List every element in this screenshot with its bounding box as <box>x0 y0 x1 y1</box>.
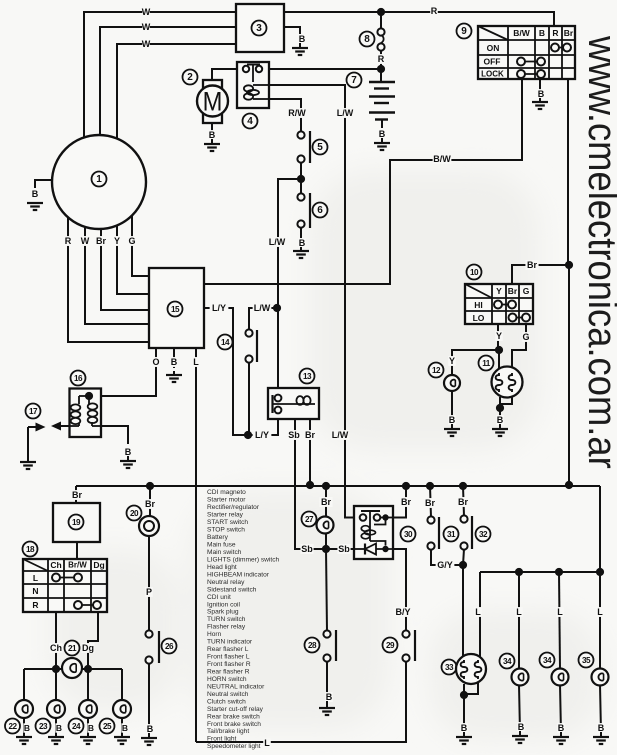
wire W1 magneto to rectifier <box>84 12 236 137</box>
wire tail light right filament return <box>464 683 478 694</box>
node Y junction <box>495 346 503 354</box>
svg-text:LO: LO <box>473 313 485 323</box>
svg-text:L: L <box>33 573 38 583</box>
node turn rail right <box>84 665 92 673</box>
LIGHTS dimmer switch 10 <box>467 265 482 280</box>
svg-text:Horn: Horn <box>207 631 222 638</box>
wire rectifier B ground lead <box>284 27 300 34</box>
svg-text:Front flasher R: Front flasher R <box>207 661 251 668</box>
wire W2 magneto to rectifier <box>100 27 236 135</box>
tail/brake light 33 <box>442 660 457 675</box>
wire fuse bottom to battery junction <box>380 50 382 69</box>
svg-text:26: 26 <box>165 642 174 651</box>
wire CDI O output to ignition coil <box>89 348 156 396</box>
wire neutral relay Sb output <box>295 419 354 549</box>
main switch OFF contacts <box>521 61 541 63</box>
wire L/W junction to sidestand switch <box>249 308 277 329</box>
wire main switch B ground lead <box>539 79 541 97</box>
wire Sb to neutral switch <box>326 549 327 631</box>
svg-text:OFF: OFF <box>484 57 501 67</box>
wire sidestand switch to L/Y junction <box>248 362 250 435</box>
svg-text:14: 14 <box>221 338 230 347</box>
front light 34b <box>540 653 555 668</box>
node rear brake Br junction <box>426 482 434 490</box>
wire front flasher L drop <box>55 669 57 701</box>
svg-text:21: 21 <box>68 644 77 653</box>
wire CDI L/Y output <box>204 308 248 435</box>
svg-text:B: B <box>88 723 94 733</box>
svg-text:Starter cut-off relay: Starter cut-off relay <box>207 706 264 713</box>
CDI unit 15 <box>149 268 204 348</box>
svg-text:CDI unit: CDI unit <box>207 594 231 601</box>
svg-text:Br: Br <box>527 260 537 270</box>
svg-text:Dg: Dg <box>93 560 104 570</box>
CDI magneto 1 <box>52 135 146 229</box>
svg-text:B/Y: B/Y <box>395 607 410 617</box>
wire stop switch to ground <box>300 227 302 238</box>
ground front flasher R <box>80 737 96 744</box>
svg-text:L/W: L/W <box>254 303 271 313</box>
wire dimmer Y output <box>497 324 499 350</box>
svg-text:5: 5 <box>317 142 323 153</box>
svg-text:START switch: START switch <box>207 519 248 526</box>
NEUTRAL indicator 27 <box>302 512 317 527</box>
wire battery negative to ground <box>381 120 383 128</box>
TURN switch 18 <box>23 542 38 557</box>
svg-text:P: P <box>146 587 152 597</box>
ground tail light <box>456 737 472 744</box>
ground stop switch <box>293 251 309 258</box>
starter relay coil <box>244 85 253 91</box>
svg-text:Head light: Head light <box>207 564 237 571</box>
wire magneto Y lead to CDI <box>117 225 149 294</box>
svg-text:L/Y: L/Y <box>212 303 226 313</box>
svg-text:HIGHBEAM indicator: HIGHBEAM indicator <box>207 571 270 578</box>
svg-text:G: G <box>522 332 529 342</box>
svg-text:Clutch switch: Clutch switch <box>207 698 246 705</box>
wire horn switch to ground <box>148 662 150 734</box>
cutoff relay coil path <box>374 518 386 525</box>
START switch 5 <box>297 131 304 138</box>
wire fuse top <box>380 12 382 28</box>
svg-text:G/Y: G/Y <box>437 560 453 570</box>
ground highbeam indicator <box>444 429 460 436</box>
rectifier/regulator 3 <box>236 4 284 52</box>
wire head light right filament to common <box>500 396 512 404</box>
node Sb junction <box>322 545 330 553</box>
ground CDI unit <box>166 375 182 382</box>
svg-text:6: 6 <box>317 205 323 216</box>
wire G/Y to tail light <box>462 565 464 657</box>
starter cut-off relay 30 <box>354 506 393 559</box>
sidestand switch 14 <box>253 303 272 313</box>
wire magneto Br lead to CDI <box>101 229 149 310</box>
node L/Y junction <box>244 431 252 439</box>
node front brake Br junction <box>459 482 467 490</box>
wire rear flasher L drop <box>23 669 25 701</box>
svg-text:11: 11 <box>482 359 491 368</box>
svg-text:www.cmelectronica.com.ar: www.cmelectronica.com.ar <box>580 35 617 469</box>
wire motor ground lead <box>211 123 213 131</box>
svg-text:25: 25 <box>103 722 112 731</box>
wire flasher lamp rail <box>24 668 122 670</box>
main switch ON contacts <box>555 47 567 49</box>
svg-text:LOCK: LOCK <box>481 70 504 79</box>
svg-text:1: 1 <box>96 174 102 185</box>
svg-text:B: B <box>558 723 565 733</box>
wire Br continues to bottom bus <box>568 265 570 485</box>
wire horn to horn switch <box>148 536 150 631</box>
svg-text:R: R <box>378 54 385 64</box>
node diode output <box>382 546 388 552</box>
wire front light 2 ground <box>560 685 561 733</box>
wire Y to highbeam indicator <box>452 350 499 375</box>
svg-text:19: 19 <box>72 518 81 527</box>
TURN indicator 21 <box>65 641 80 656</box>
svg-text:Front light: Front light <box>207 736 236 743</box>
svg-text:13: 13 <box>303 372 312 381</box>
node tail light common <box>460 691 468 699</box>
svg-text:R: R <box>552 28 558 38</box>
svg-text:3: 3 <box>256 23 262 34</box>
svg-text:NEUTRAL indicator: NEUTRAL indicator <box>207 683 265 690</box>
svg-text:L: L <box>475 607 481 617</box>
svg-text:HORN switch: HORN switch <box>207 676 247 683</box>
neutral relay 13 <box>300 369 315 384</box>
ground rectifier <box>292 48 308 55</box>
svg-text:B: B <box>539 28 545 38</box>
svg-text:Sb: Sb <box>288 430 300 440</box>
svg-text:B: B <box>379 129 386 139</box>
wire L drop to front light 2 <box>559 572 560 669</box>
svg-text:Br: Br <box>458 497 468 507</box>
wire CDI B ground stub <box>173 348 175 368</box>
wire L drop to tail light <box>479 572 481 657</box>
wire starter cutoff relay Br feed <box>393 486 406 518</box>
svg-text:9: 9 <box>461 26 467 37</box>
spark gap arrows <box>56 425 70 427</box>
horn 20 <box>127 506 142 521</box>
node ignition coil primary <box>85 392 93 400</box>
svg-text:W: W <box>142 39 151 49</box>
svg-text:R: R <box>32 600 38 610</box>
ground rear flasher L <box>16 737 32 744</box>
node cutoff relay Br drop <box>402 482 410 490</box>
turn switch R contacts <box>78 604 97 606</box>
main fuse 8 <box>377 28 384 35</box>
ignition coil 16 <box>71 371 86 386</box>
svg-text:Starter relay: Starter relay <box>207 512 244 519</box>
svg-text:Br: Br <box>564 28 574 38</box>
node start/stop junction <box>297 175 305 183</box>
HORN switch 26 <box>145 630 152 637</box>
wire flasher relay to turn switch <box>76 542 78 559</box>
svg-text:Y: Y <box>114 236 120 246</box>
wire R rectifier to main switch <box>284 12 554 26</box>
wire L/Y junction to neutral relay pin <box>248 414 278 435</box>
wire spark plug lead to ground <box>27 427 29 461</box>
svg-text:B/W: B/W <box>513 28 531 38</box>
svg-text:B: B <box>209 130 216 140</box>
wire flasher lamp grounds <box>23 718 25 736</box>
svg-text:L/W: L/W <box>337 108 354 118</box>
svg-text:Y: Y <box>496 331 502 341</box>
wire motor to starter relay <box>212 69 243 80</box>
ground speedometer light <box>593 737 609 744</box>
svg-text:B: B <box>538 89 545 99</box>
svg-text:ON: ON <box>487 43 500 53</box>
front flasher L 23 <box>47 700 65 718</box>
svg-text:B: B <box>24 723 30 733</box>
ignition coil windings <box>71 404 81 410</box>
svg-text:Front brake switch: Front brake switch <box>207 721 261 728</box>
svg-text:B: B <box>299 238 306 248</box>
svg-text:Rectifier/regulator: Rectifier/regulator <box>207 504 260 511</box>
node cutoff relay pin junction <box>382 514 388 520</box>
svg-text:24: 24 <box>72 722 81 731</box>
wire head light left filament to common <box>499 397 501 408</box>
svg-text:B: B <box>32 189 39 199</box>
ground magneto <box>27 203 43 210</box>
svg-text:G: G <box>128 236 135 246</box>
svg-text:B: B <box>461 723 468 733</box>
wire front brake switch Br drop <box>463 486 464 516</box>
svg-text:Spark plug: Spark plug <box>207 609 239 616</box>
ground battery <box>374 143 390 150</box>
spark plug 17 <box>26 404 41 419</box>
svg-text:Battery: Battery <box>207 534 229 541</box>
wire main switch B/W to CDI unit <box>204 79 522 284</box>
wire flasher relay Br drop <box>75 486 77 503</box>
head light 11 <box>479 356 494 371</box>
ground ignition coil <box>120 461 136 468</box>
main switch 9 <box>457 24 472 39</box>
flasher relay 19 <box>53 503 100 542</box>
svg-text:L: L <box>516 607 522 617</box>
front flasher R 24 <box>79 700 97 718</box>
svg-text:Y: Y <box>496 286 502 296</box>
wire bus corner down to lighting feed <box>599 486 601 572</box>
ground front light 34a <box>512 736 528 743</box>
svg-text:Ignition coil: Ignition coil <box>207 601 241 608</box>
dimmer LO contacts <box>513 317 527 319</box>
svg-text:28: 28 <box>308 641 317 650</box>
svg-text:Starter motor: Starter motor <box>207 497 246 504</box>
wire magneto ground lead <box>35 180 52 188</box>
battery 7 <box>369 82 395 120</box>
wire stop switch leg <box>300 182 302 194</box>
ground front flasher L <box>48 737 64 744</box>
wire rear brake switch Br drop <box>430 486 431 517</box>
starter relay 4 <box>237 62 269 108</box>
svg-text:33: 33 <box>445 663 454 672</box>
wire neutral switch to ground <box>326 661 328 707</box>
turn switch L contacts <box>56 577 78 579</box>
svg-text:32: 32 <box>479 530 488 539</box>
svg-text:Y: Y <box>449 356 455 366</box>
wire turn switch Ch output <box>55 612 57 669</box>
svg-text:17: 17 <box>29 407 38 416</box>
svg-text:HI: HI <box>474 300 483 310</box>
wire magneto R lead to CDI <box>68 217 149 342</box>
svg-text:B: B <box>299 34 306 44</box>
svg-text:LIGHTS (dimmer) switch: LIGHTS (dimmer) switch <box>207 556 280 563</box>
svg-text:4: 4 <box>247 116 253 127</box>
svg-text:B: B <box>125 447 132 457</box>
svg-text:15: 15 <box>171 305 180 314</box>
svg-text:Dg: Dg <box>82 643 94 653</box>
svg-text:L/Y: L/Y <box>255 430 269 440</box>
svg-text:31: 31 <box>447 530 456 539</box>
svg-text:Main switch: Main switch <box>207 549 242 556</box>
svg-text:W: W <box>142 7 151 17</box>
svg-text:L: L <box>557 607 563 617</box>
HIGHBEAM indicator 12 <box>429 363 444 378</box>
svg-text:B: B <box>147 724 154 734</box>
wire Br to dimmer switch <box>512 265 569 284</box>
svg-text:10: 10 <box>470 268 479 277</box>
wire speedometer light ground <box>600 685 601 733</box>
svg-text:STOP switch: STOP switch <box>207 527 245 534</box>
wire L drop to speedometer light <box>599 572 601 669</box>
svg-text:R/W: R/W <box>288 108 306 118</box>
svg-text:Rear brake switch: Rear brake switch <box>207 713 260 720</box>
node head light common <box>496 404 504 412</box>
svg-text:L: L <box>264 738 270 748</box>
wire rear flasher R drop <box>121 669 123 701</box>
svg-text:Main fuse: Main fuse <box>207 541 236 548</box>
wire battery positive stem <box>380 69 382 82</box>
ground horn switch <box>141 738 157 745</box>
svg-text:B: B <box>497 415 504 425</box>
svg-text:Rear flasher L: Rear flasher L <box>207 646 249 653</box>
node horn junction <box>146 482 154 490</box>
svg-text:29: 29 <box>386 641 395 650</box>
node R junction top <box>377 8 385 16</box>
svg-text:Br: Br <box>321 497 331 507</box>
wire CDI L output down <box>195 348 197 742</box>
node G/Y junction <box>459 561 467 569</box>
svg-text:Br: Br <box>72 490 82 500</box>
svg-text:23: 23 <box>39 722 48 731</box>
svg-text:TURN switch: TURN switch <box>207 616 246 623</box>
ground head light <box>492 429 508 436</box>
wire starter relay to R/W start switch <box>269 99 301 131</box>
wire cutoff relay output to clutch switch <box>393 549 406 631</box>
svg-text:18: 18 <box>26 545 35 554</box>
svg-text:L: L <box>193 357 199 367</box>
wire turn switch Dg output <box>88 612 98 669</box>
svg-text:Rear flasher R: Rear flasher R <box>207 668 250 675</box>
wire Br label flasher relay <box>70 490 83 500</box>
wire L drop to front light 1 <box>518 572 520 669</box>
starter motor 2 <box>203 80 222 123</box>
ground neutral switch <box>319 708 335 715</box>
svg-text:B: B <box>518 722 525 732</box>
cutoff relay diode <box>364 544 366 555</box>
svg-text:Tail/brake light: Tail/brake light <box>207 728 249 735</box>
svg-text:8: 8 <box>364 34 370 45</box>
svg-text:W: W <box>142 22 151 32</box>
svg-text:Flasher relay: Flasher relay <box>207 624 246 631</box>
clutch switch 29 <box>394 607 413 617</box>
svg-text:30: 30 <box>404 530 413 539</box>
wire junction to L/W branch <box>278 179 301 397</box>
neutral switch 28 <box>323 630 330 637</box>
svg-text:L: L <box>597 607 603 617</box>
wire ignition coil primary return to ground <box>101 426 128 444</box>
svg-text:Br: Br <box>425 498 435 508</box>
node Br bus to main switch <box>565 481 573 489</box>
starter relay contact <box>247 64 260 66</box>
node turn rail left <box>52 665 60 673</box>
svg-text:20: 20 <box>130 509 139 518</box>
node battery junction <box>377 65 385 73</box>
wire Y into head light <box>498 350 500 370</box>
wire lighting L bus <box>480 571 600 573</box>
ground front light 34b <box>553 737 569 744</box>
speedometer light 35 <box>579 653 594 668</box>
STOP switch 6 <box>297 193 304 200</box>
svg-text:W: W <box>81 236 90 246</box>
node L/W sidestand junction <box>273 304 281 312</box>
svg-text:Ch: Ch <box>50 560 61 570</box>
svg-text:Neutral relay: Neutral relay <box>207 579 245 586</box>
svg-text:Br: Br <box>145 499 155 509</box>
wire rear brake switch to G/Y junction <box>431 549 463 565</box>
svg-text:Br: Br <box>508 286 518 296</box>
wire Br main bus <box>76 485 600 487</box>
dimmer HI contacts <box>498 304 512 306</box>
wire W3 magneto to rectifier <box>117 44 236 138</box>
rear flasher R 25 <box>113 700 131 718</box>
svg-text:R: R <box>431 6 438 16</box>
svg-text:M: M <box>203 87 223 117</box>
svg-text:B: B <box>56 723 62 733</box>
svg-text:L/W: L/W <box>332 430 349 440</box>
svg-text:12: 12 <box>432 366 441 375</box>
svg-text:Neutral switch: Neutral switch <box>207 691 249 698</box>
svg-text:B: B <box>122 723 128 733</box>
svg-text:Br/W: Br/W <box>68 561 87 570</box>
wire start switch to junction <box>300 162 302 179</box>
svg-text:34: 34 <box>503 657 512 666</box>
cutoff relay contact <box>361 510 380 512</box>
svg-text:B: B <box>598 723 605 733</box>
ground main switch <box>532 102 548 109</box>
svg-text:Br: Br <box>305 430 315 440</box>
wire L bottom run to clutch switch <box>196 662 406 742</box>
legend list <box>207 489 280 750</box>
node neutral relay Br junction <box>306 481 314 489</box>
svg-text:G: G <box>523 286 530 296</box>
wire starter relay coil to L/W <box>269 85 360 518</box>
wire neutral indicator to Sb line <box>325 533 327 549</box>
ground starter motor <box>204 144 220 151</box>
front light 34a <box>500 654 515 669</box>
svg-text:Br: Br <box>401 497 411 507</box>
svg-text:Sb: Sb <box>338 544 350 554</box>
wire highbeam indicator to ground <box>451 391 453 424</box>
wire head light common to ground <box>499 408 501 424</box>
svg-text:Ch: Ch <box>50 643 62 653</box>
svg-text:27: 27 <box>305 515 314 524</box>
wire front flasher R drop <box>87 669 89 701</box>
svg-text:Br: Br <box>96 236 106 246</box>
ground rear flasher R <box>114 737 130 744</box>
svg-text:Speedometer light: Speedometer light <box>207 743 261 750</box>
svg-text:16: 16 <box>74 374 83 383</box>
